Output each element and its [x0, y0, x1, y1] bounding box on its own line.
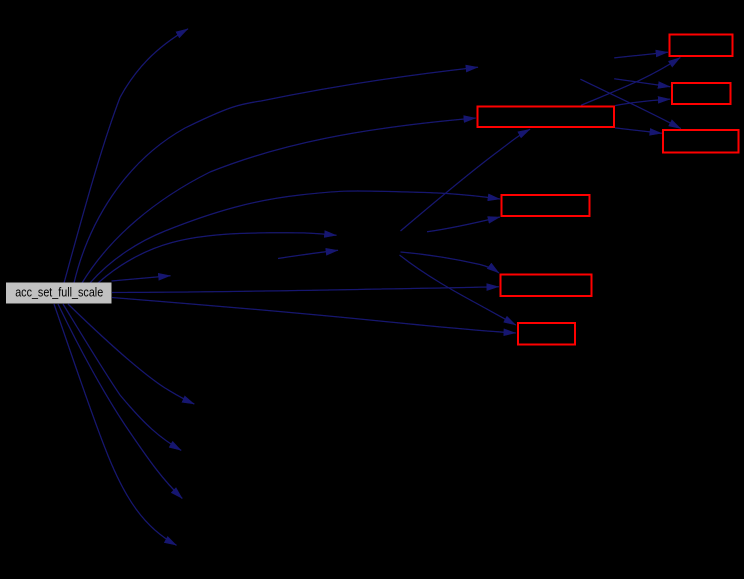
- wire node N to node M: [278, 250, 338, 258]
- wire main to node P1 top-left: [64, 29, 188, 283]
- wire box B4 corner to box B3 left: [615, 128, 662, 133]
- wire main to box B5 lower (segment visible right of invisible node): [427, 217, 500, 232]
- wire main to box B6: [112, 287, 499, 293]
- box B4 wide red: [478, 107, 615, 128]
- wire main to invisible node D2: [63, 304, 181, 450]
- wire node M to box B7: [400, 255, 516, 325]
- box B1 top right red: [670, 35, 733, 57]
- node main acc_set_full_scale: [6, 283, 112, 304]
- box B2 right red: [672, 83, 731, 104]
- svg-text:acc_set_full_scale: acc_set_full_scale: [15, 285, 103, 300]
- wire main to invisible node D4: [54, 304, 177, 545]
- wire main to box B5 upper: [90, 191, 500, 283]
- box B3 right red: [663, 130, 739, 153]
- wire main to wide box B4: [82, 118, 476, 283]
- wire node X to box B1 left: [614, 52, 668, 58]
- box B6 red: [501, 275, 592, 297]
- wire node X bottom to box B3 top: [580, 79, 680, 128]
- box B7 red: [518, 323, 575, 345]
- wire main to invisible node N: [112, 276, 171, 281]
- wire node M to box B6: [401, 252, 500, 273]
- wire main to invisible node X: [74, 67, 478, 283]
- wire main to invisible node M: [98, 233, 337, 283]
- wire box B4 top to box B1 bottom: [581, 58, 680, 106]
- wire box B4 corner to box B2 lower: [615, 99, 670, 106]
- wire main to box B7: [112, 298, 516, 334]
- wire main to invisible node D1: [68, 304, 194, 404]
- wire node X to box B2 upper: [614, 79, 670, 87]
- wire node M to box B4 bottom: [401, 129, 531, 231]
- wire main to invisible node D3: [58, 304, 182, 499]
- box B5 red: [502, 195, 590, 216]
